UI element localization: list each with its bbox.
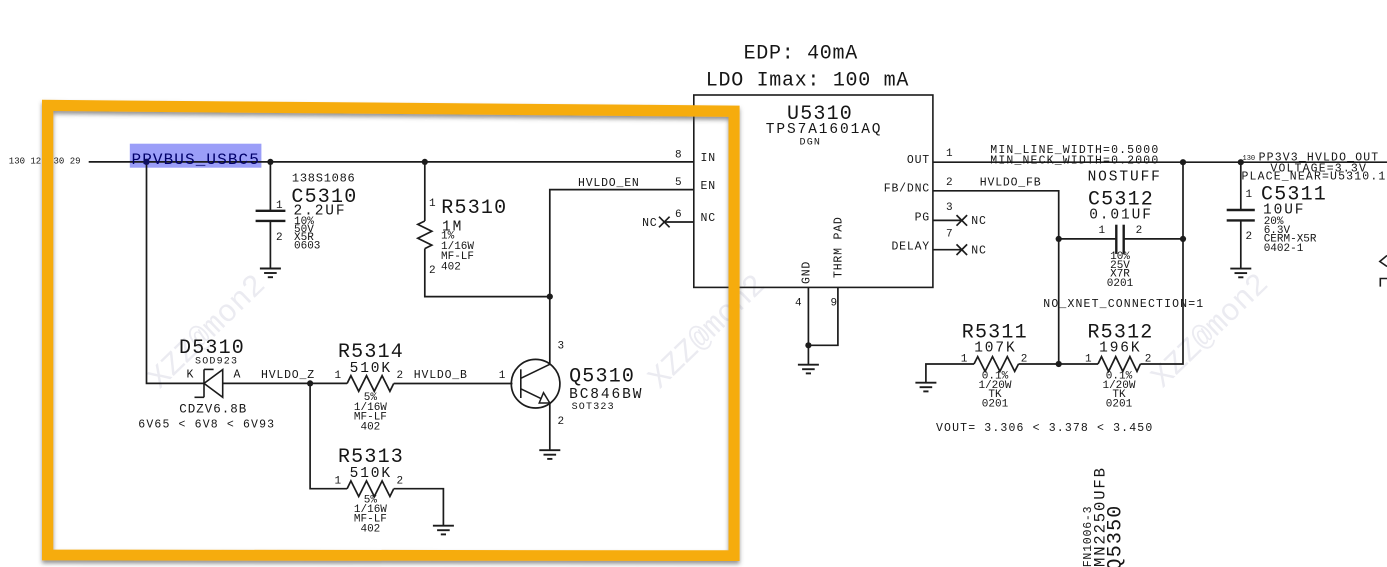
svg-text:8: 8 <box>675 150 682 162</box>
ground under U5310 <box>798 365 819 374</box>
svg-text:FB/DNC: FB/DNC <box>884 183 930 196</box>
svg-text:EN: EN <box>701 180 716 193</box>
transistor Q5310 <box>511 359 560 449</box>
svg-text:1: 1 <box>1099 225 1106 237</box>
resistor R5314 <box>347 376 394 392</box>
wire HVLDO_FB <box>933 191 1059 364</box>
svg-text:DGN: DGN <box>800 137 822 148</box>
resistor R5312 <box>1059 357 1141 372</box>
svg-text:0.01UF: 0.01UF <box>1089 207 1153 223</box>
node PPVBUS_USBC5 highlight <box>130 144 262 168</box>
svg-text:GND: GND <box>801 261 814 284</box>
wire main input PPVBUS_USBC5 <box>89 161 694 163</box>
wire THRM PAD pin 9 <box>808 287 838 345</box>
junction HVLDO_Z <box>307 380 313 386</box>
svg-text:HVLDO_Z: HVLDO_Z <box>261 369 315 382</box>
svg-text:HVLDO_FB: HVLDO_FB <box>980 176 1042 189</box>
wire HVLDO_B <box>394 383 513 385</box>
svg-text:1: 1 <box>276 200 283 212</box>
svg-text:138S1086: 138S1086 <box>292 172 356 186</box>
svg-text:SOD923: SOD923 <box>195 357 238 368</box>
svg-text:K: K <box>187 369 195 382</box>
svg-text:CDZV6.8B: CDZV6.8B <box>179 402 247 416</box>
svg-text:1: 1 <box>499 370 506 382</box>
junction OUT/C5311 <box>1238 159 1244 165</box>
svg-text:2: 2 <box>397 475 404 487</box>
wire HVLDO_EN <box>550 190 694 365</box>
svg-text:0201: 0201 <box>1107 278 1134 290</box>
resistor R5311 <box>926 357 1059 383</box>
svg-text:402: 402 <box>360 523 380 535</box>
svg-text:PG: PG <box>915 212 930 225</box>
svg-text:2: 2 <box>1136 225 1143 237</box>
svg-text:DELAY: DELAY <box>891 241 930 254</box>
junction GND/THRM <box>805 342 811 348</box>
svg-text:2: 2 <box>1021 354 1028 366</box>
junction FB/C5312 <box>1056 236 1062 242</box>
svg-text:510K: 510K <box>350 361 392 377</box>
junction at C5310 <box>267 159 273 165</box>
ground under R5313 <box>433 526 454 535</box>
svg-text:HVLDO_EN: HVLDO_EN <box>578 177 640 190</box>
svg-text:3: 3 <box>946 202 953 214</box>
no-connect stub pin 6 <box>664 221 694 223</box>
svg-text:XZZ@mon2: XZZ@mon2 <box>1145 267 1276 396</box>
svg-text:BC846BW: BC846BW <box>569 387 643 403</box>
svg-text:6V65 < 6V8 < 6V93: 6V65 < 6V8 < 6V93 <box>138 419 275 432</box>
svg-text:HVLDO_B: HVLDO_B <box>414 369 468 382</box>
svg-text:PLACE_NEAR=U5310.1: PLACE_NEAR=U5310.1 <box>1242 171 1387 184</box>
svg-text:DFN1006-3: DFN1006-3 <box>1082 506 1095 567</box>
svg-text:Q5310: Q5310 <box>569 366 635 389</box>
svg-text:NOSTUFF: NOSTUFF <box>1088 170 1162 186</box>
junction R5311/R5312/FB <box>1056 361 1062 367</box>
svg-text:510K: 510K <box>350 466 392 482</box>
orange highlight frame <box>42 100 740 561</box>
svg-text:PPVBUS_USBC5: PPVBUS_USBC5 <box>132 151 260 169</box>
svg-text:2: 2 <box>1246 231 1253 243</box>
svg-text:0603: 0603 <box>294 241 320 253</box>
svg-text:0201: 0201 <box>1106 398 1133 410</box>
svg-text:196K: 196K <box>1099 341 1141 357</box>
capacitor C5310 <box>256 162 286 268</box>
svg-text:OUT: OUT <box>907 154 930 167</box>
svg-text:0402-1: 0402-1 <box>1264 243 1304 255</box>
junction at R5310 <box>422 159 428 165</box>
svg-text:SOT323: SOT323 <box>572 402 615 413</box>
svg-text:1: 1 <box>429 198 436 210</box>
junction on PPVBUS at diode branch <box>143 159 149 165</box>
svg-text:1: 1 <box>946 148 953 160</box>
junction OUT/vertical <box>1180 159 1186 165</box>
ground under Q5310 <box>539 450 560 459</box>
ground under C5310 <box>260 269 281 278</box>
svg-text:VOUT= 3.306 < 3.378 < 3.450: VOUT= 3.306 < 3.378 < 3.450 <box>936 422 1153 435</box>
svg-text:R5310: R5310 <box>441 197 507 220</box>
svg-text:2: 2 <box>276 232 283 244</box>
resistor R5313 <box>310 383 443 525</box>
svg-text:IN: IN <box>701 152 716 165</box>
wire OUT net PP3V3_HVLDO_OUT <box>933 161 1387 163</box>
svg-text:107K: 107K <box>974 341 1016 357</box>
junction EN/R5310 <box>547 294 553 300</box>
svg-text:4: 4 <box>795 298 802 310</box>
capacitor C5311 <box>1227 162 1255 268</box>
ground under C5311 <box>1230 269 1251 278</box>
svg-text:1: 1 <box>335 370 342 382</box>
wire vertical OUT to R5312 <box>1140 162 1183 364</box>
svg-text:130 12: 130 12 <box>9 156 41 166</box>
wire HVLDO_Z <box>223 382 347 384</box>
svg-text:A: A <box>234 369 242 382</box>
svg-text:1: 1 <box>1085 354 1092 366</box>
svg-text:402: 402 <box>441 261 461 273</box>
wire vertical to diode D5310 <box>147 162 205 384</box>
svg-text:6: 6 <box>675 209 682 221</box>
svg-text:3: 3 <box>558 341 565 353</box>
svg-text:7: 7 <box>946 228 953 240</box>
svg-text:EDP: 40mA: EDP: 40mA <box>744 42 858 65</box>
svg-text:NC: NC <box>642 217 657 230</box>
svg-text:TPS7A1601AQ: TPS7A1601AQ <box>766 122 883 138</box>
no-connect stub pin 3 PG <box>933 219 962 221</box>
svg-text:LDO Imax: 100 mA: LDO Imax: 100 mA <box>706 70 909 93</box>
partial symbol right edge corner <box>1380 279 1387 287</box>
svg-text:402: 402 <box>360 422 380 434</box>
svg-text:0201: 0201 <box>982 398 1009 410</box>
wire GND pin 4 <box>807 287 809 364</box>
svg-text:1: 1 <box>961 354 968 366</box>
svg-text:THRM PAD: THRM PAD <box>833 216 846 278</box>
zener diode D5310 <box>195 369 223 397</box>
svg-text:2: 2 <box>429 265 436 277</box>
partial symbol right edge chevron <box>1380 256 1387 267</box>
resistor R5310 <box>418 162 550 297</box>
capacitor C5312 <box>1059 225 1183 254</box>
ground at R5311 <box>915 383 936 392</box>
junction C5312/vertical <box>1180 236 1186 242</box>
svg-text:130: 130 <box>1243 155 1256 163</box>
svg-text:MIN_NECK_WIDTH=0.2000: MIN_NECK_WIDTH=0.2000 <box>990 155 1159 168</box>
no-connect stub pin 7 DELAY <box>933 249 962 251</box>
svg-text:2: 2 <box>397 370 404 382</box>
svg-text:2: 2 <box>558 416 565 428</box>
svg-text:1: 1 <box>1246 189 1253 201</box>
svg-text:5: 5 <box>675 177 682 189</box>
svg-text:30 29: 30 29 <box>54 156 81 166</box>
svg-text:1: 1 <box>335 475 342 487</box>
svg-text:NO_XNET_CONNECTION=1: NO_XNET_CONNECTION=1 <box>1043 298 1204 311</box>
svg-text:9: 9 <box>831 298 838 310</box>
IC U5310 box <box>694 95 933 287</box>
svg-text:NC: NC <box>971 215 986 228</box>
svg-text:NC: NC <box>701 212 716 225</box>
svg-text:NC: NC <box>971 245 986 258</box>
svg-text:XZZ@mon2: XZZ@mon2 <box>142 268 273 397</box>
svg-text:2: 2 <box>1145 354 1152 366</box>
svg-text:2: 2 <box>946 177 953 189</box>
